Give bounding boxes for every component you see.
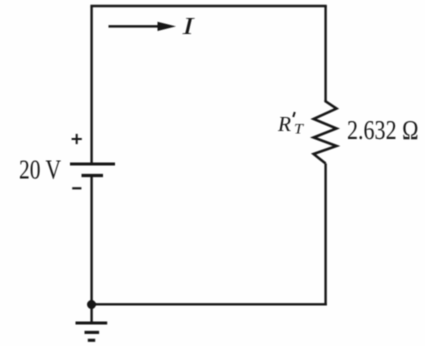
battery V1 long plate (70, 163, 115, 166)
wire left lower (90, 176, 92, 322)
wire right lower (324, 164, 326, 306)
plus sign of battery (72, 134, 82, 144)
wire bottom (92, 303, 327, 305)
current arrow shaft (109, 25, 162, 28)
junction dot node A (87, 300, 96, 309)
wire right upper (324, 6, 326, 102)
resistor R'T zigzag (314, 100, 337, 163)
ground bar 1 (76, 322, 108, 325)
svg-text:20 V: 20 V (19, 155, 61, 185)
ground bar 3 (88, 339, 95, 342)
wire left upper (90, 6, 92, 164)
minus sign of battery (72, 187, 81, 189)
ground bar 2 (85, 331, 100, 334)
battery V1 short plate (82, 174, 104, 177)
svg-text:2.632 Ω: 2.632 Ω (347, 115, 419, 145)
wire top (90, 5, 326, 7)
svg-text:R: R (277, 112, 291, 136)
current arrow head (158, 22, 177, 31)
svg-text:I: I (181, 14, 195, 40)
svg-text:T: T (294, 122, 304, 138)
prime mark of R (293, 112, 295, 117)
